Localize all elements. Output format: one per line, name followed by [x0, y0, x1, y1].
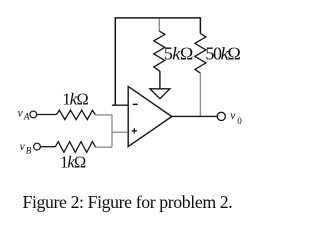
svg-text:v: v	[20, 141, 26, 153]
wire: left feedback vertical to inverting input	[114, 17, 116, 105]
wire: 50k top lead	[199, 17, 201, 33]
wire: output	[172, 115, 217, 117]
caption	[23, 192, 233, 213]
wire: top feedback rail	[115, 17, 200, 19]
node vB: input terminal circle	[34, 143, 41, 150]
wire: vA terminal to resistor	[37, 114, 57, 116]
ground (open arrow)	[150, 89, 170, 99]
wire: vB resistor lead to bus (gray)	[96, 146, 113, 148]
wire: 5k top lead (gray)	[158, 19, 160, 32]
svg-text:A: A	[23, 112, 30, 122]
wire: vB terminal to resistor	[40, 146, 55, 148]
svg-text:1kΩ: 1kΩ	[62, 90, 88, 109]
op-amp U1	[128, 86, 172, 146]
resistor 5kΩ	[154, 31, 165, 72]
pin − (inverting input mark)	[133, 103, 138, 105]
node v0: output terminal circle	[217, 112, 225, 120]
svg-text:50kΩ: 50kΩ	[205, 44, 240, 64]
node vA: input terminal circle	[30, 111, 37, 118]
svg-text:v: v	[18, 107, 24, 119]
svg-text:B: B	[26, 146, 32, 156]
wire: inverting input stub	[112, 104, 129, 106]
wire: 50k bottom lead to output node (gray)	[199, 73, 201, 117]
wire: non-inverting input stub (gray)	[112, 131, 129, 133]
wire: 5k bottom lead	[159, 71, 161, 88]
resistor 50kΩ	[195, 34, 206, 74]
wire: input bus vertical (gray)	[111, 115, 113, 147]
svg-text:v: v	[230, 110, 236, 122]
resistor 1kΩ (vB branch)	[55, 142, 95, 153]
resistor 1kΩ (vA branch)	[57, 110, 96, 119]
svg-text:1kΩ: 1kΩ	[60, 153, 86, 172]
svg-text:0: 0	[237, 116, 242, 126]
pin + (non-inverting input mark)	[132, 128, 137, 133]
svg-text:5kΩ: 5kΩ	[164, 44, 193, 64]
wire: vA resistor lead to bus (gray)	[95, 114, 112, 116]
